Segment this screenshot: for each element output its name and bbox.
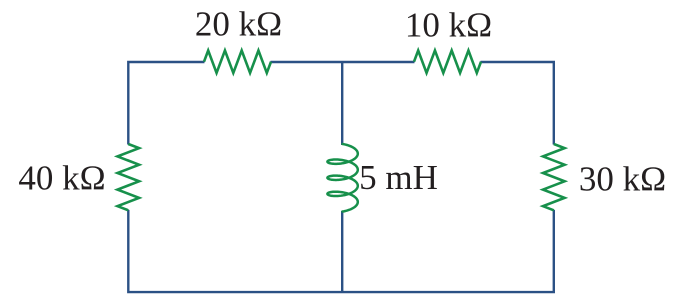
- svg-text:30 kΩ: 30 kΩ: [579, 160, 666, 199]
- resistor R2 10 kOhm: [414, 51, 481, 73]
- resistor R1 20 kOhm: [204, 51, 271, 73]
- wire: top rail between 20k resistor and node A: [271, 61, 415, 63]
- svg-text:20 kΩ: 20 kΩ: [195, 5, 282, 44]
- inductor L1 5 mH: [327, 144, 357, 212]
- resistor R3 40 kOhm: [118, 144, 140, 210]
- resistor R4 30 kOhm: [543, 144, 565, 210]
- wire: left branch top + top-left rail segment: [128, 62, 204, 145]
- svg-text:5 mH: 5 mH: [359, 158, 438, 197]
- svg-text:10 kΩ: 10 kΩ: [405, 6, 492, 45]
- wire: left branch bottom, bottom rail, right branch bottom: [128, 210, 554, 292]
- wire: middle branch bottom (inductor down to bottom rail): [341, 211, 343, 292]
- wire: middle branch top (node A down to inductor): [341, 62, 343, 145]
- wire: top rail right segment + right branch top: [481, 62, 554, 145]
- svg-text:40 kΩ: 40 kΩ: [18, 158, 105, 197]
